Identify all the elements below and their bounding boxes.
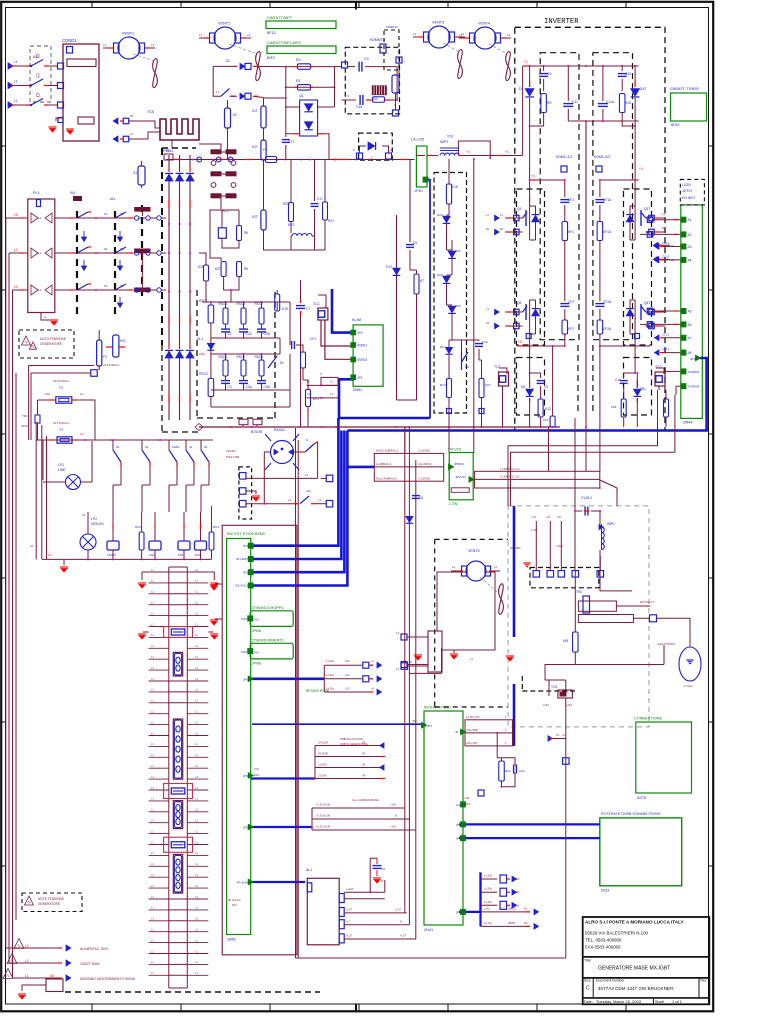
vent5 loop wires: [437, 572, 466, 631]
svg-text:K15: K15: [282, 307, 288, 311]
cap pair column top: [211, 150, 221, 154]
snubber RSC dashed box lines: [196, 290, 198, 418]
svg-text:120/0C: 120/0C: [226, 449, 237, 453]
svg-text:DL1: DL1: [197, 337, 203, 341]
svg-text:TGRD01: TGRD01: [688, 370, 700, 374]
svg-text:1-L2Ky: 1-L2Ky: [326, 659, 335, 663]
blue wire JP3 to system box: [459, 837, 600, 839]
svg-text:C7: C7: [306, 307, 310, 311]
svg-text:JP1: JP1: [357, 376, 363, 380]
svg-text:1 of 1: 1 of 1: [672, 999, 683, 1004]
komnt3 pin top: [380, 44, 386, 53]
svg-text:2M44: 2M44: [683, 421, 693, 425]
svg-text:FAX 0583-406060: FAX 0583-406060: [585, 945, 621, 950]
svg-text:IMP2: IMP2: [440, 140, 448, 144]
igbt module KOM1-2/2 dashed box: [593, 53, 633, 340]
warning triangles bottom: [14, 939, 24, 949]
center output line: [585, 121, 587, 418]
igbt lower dashed box right: [624, 358, 652, 416]
svg-text:1-L2Ky: 1-L2Ky: [484, 887, 493, 891]
svg-text:1-(S2F): 1-(S2F): [318, 763, 327, 767]
TC5 hanging wire: [171, 140, 173, 148]
svg-text:LA-1/25: LA-1/25: [411, 138, 424, 142]
resistor R25 column: [290, 160, 292, 203]
kom pins: [561, 166, 567, 172]
svg-text:S2: S2: [233, 113, 237, 117]
blue jpn top: [478, 790, 484, 796]
excitation lower loop: [545, 665, 575, 681]
excitation relay contacts: [523, 562, 530, 564]
cap C6 and resistor R9: [543, 66, 545, 71]
svg-text:D20: D20: [437, 213, 443, 217]
VENT5 dashed box: [434, 539, 436, 707]
svg-text:GENERATORE: GENERATORE: [40, 342, 62, 346]
svg-text:J2C: J2C: [345, 659, 350, 663]
svg-text:1F40: 1F40: [414, 189, 423, 193]
svg-text:C2B: C2B: [264, 332, 270, 336]
resistor K12: [538, 399, 543, 417]
svg-text:L1: L1: [38, 288, 42, 292]
svg-text:VENT2: VENT2: [218, 22, 230, 26]
kt200 pins right edge: [248, 543, 253, 548]
relay rc snubbers: [139, 532, 144, 550]
cap C11: [567, 66, 569, 101]
svg-text:Date:: Date:: [584, 1000, 593, 1004]
svg-text:PD1: PD1: [166, 149, 173, 153]
svg-text:1-L30 A12M: 1-L30 A12M: [316, 803, 330, 807]
svg-text:D20: D20: [437, 273, 443, 277]
al1 output rows: [344, 891, 385, 893]
vent5 grounds: [453, 650, 455, 653]
top right small dashed KOMNT2: [384, 30, 399, 70]
svg-text:∿: ∿: [6, 973, 10, 978]
svg-text:CN2: CN2: [149, 553, 155, 557]
svg-text:∿: ∿: [27, 900, 31, 905]
svg-text:L-R2T: L-R2T: [556, 544, 564, 548]
wire bundle box left of TRVOL: [374, 453, 443, 481]
svg-text:CF1: CF1: [568, 198, 574, 202]
svg-text:L2K1: L2K1: [566, 703, 573, 707]
bbob wires to terminals: [246, 477, 318, 479]
PL1 output rows: [55, 217, 77, 219]
svg-text:ALL- ALIMENTAZIONE: ALL- ALIMENTAZIONE: [352, 798, 379, 802]
wire into inverter riser: [522, 66, 524, 156]
dc minus bus: [199, 426, 560, 428]
svg-text:1-L2Ky: 1-L2Ky: [484, 900, 493, 904]
cap CF2A resistor KF2A: [599, 337, 601, 347]
warning note dashed box bottom: [22, 893, 82, 912]
interf kt200 edge pins: [461, 802, 466, 807]
igbt module KOM1-1/2 dashed box: [540, 53, 579, 340]
q6 input arrows: [495, 309, 499, 315]
svg-text:K16: K16: [452, 185, 458, 189]
svg-text:2N81: 2N81: [353, 388, 362, 392]
rectifier PD1 dashed line: [161, 148, 163, 345]
svg-text:IA1: IA1: [110, 197, 115, 201]
svg-text:S4: S4: [362, 752, 366, 756]
resistor K7: [414, 274, 419, 294]
svg-text:K0MNT2: K0MNT2: [386, 25, 398, 29]
sensor wire inside LA: [416, 155, 425, 157]
svg-text:S1: S1: [145, 445, 149, 449]
bbob ground: [246, 491, 256, 494]
right riser R block: [334, 67, 336, 107]
chopper feed verticals: [396, 215, 398, 400]
svg-text:Q3T: Q3T: [644, 207, 650, 211]
svg-text:4077A3 CDM 1347 GW BRUCKNER: 4077A3 CDM 1347 GW BRUCKNER: [598, 986, 674, 991]
svg-text:L1: L1: [288, 498, 292, 502]
svg-text:D: D: [410, 660, 412, 664]
svg-text:KLIM: KLIM: [352, 318, 361, 322]
svg-text:L1: L1: [216, 90, 220, 94]
svg-text:C10: C10: [625, 72, 631, 76]
rl1 wiring: [210, 196, 221, 261]
wire rows S2F group: [314, 746, 316, 779]
svg-text:K18: K18: [611, 405, 617, 409]
svg-text:SVR02: SVR02: [357, 358, 367, 362]
svg-text:U/D: U/D: [254, 767, 259, 771]
svg-text:KF2: KF2: [568, 327, 574, 331]
svg-text:F2: F2: [60, 428, 64, 432]
komnt3 cap C16: [342, 99, 357, 101]
svg-text:CARATT. TRASF.: CARATT. TRASF.: [670, 87, 700, 91]
svg-text:2-L30 A12M: 2-L30 A12M: [316, 814, 330, 818]
svg-text:B0-126 dim: B0-126 dim: [228, 899, 241, 902]
wire Q1 top to rails: [286, 106, 300, 108]
svg-text:A5: A5: [688, 310, 692, 314]
chopper dashed box: [434, 173, 467, 414]
svg-text:NOTE TENSIONE: NOTE TENSIONE: [38, 897, 64, 901]
svg-text:MASSIMO ASSORBIMENTO 500VA: MASSIMO ASSORBIMENTO 500VA: [80, 977, 136, 981]
svg-text:A278: A278: [637, 796, 646, 800]
svg-text:CN3: CN3: [253, 618, 259, 622]
svg-text:TC6: TC6: [447, 135, 453, 139]
chopper diode D26: [448, 306, 456, 312]
svg-text:2N1: 2N1: [640, 387, 646, 391]
svg-text:K7: K7: [420, 279, 424, 283]
ground inside COND1 left: [49, 126, 57, 128]
chopper diode D20b: [443, 276, 451, 282]
svg-text:L4: L4: [396, 631, 400, 635]
svg-text:L2Ky D2T: L2Ky D2T: [466, 741, 478, 745]
svg-text:L2: L2: [25, 959, 29, 963]
svg-text:2N41: 2N41: [424, 928, 433, 932]
svg-text:1: 1: [371, 156, 373, 160]
svg-text:13K: 13K: [45, 392, 50, 396]
svg-text:2K11: 2K11: [601, 889, 610, 893]
rsc dashed bottom2: [161, 345, 163, 432]
svg-text:A3: A3: [688, 245, 692, 249]
PL1 left feeder verticals: [5, 218, 7, 425]
svg-text:ELETTRODO: ELETTRODO: [658, 642, 676, 646]
fuse S1 vertical: [138, 166, 145, 185]
relay coils row: [112, 512, 114, 541]
resistor K21 small: [204, 265, 209, 281]
svg-text:C16: C16: [356, 105, 362, 109]
blue wire JP6 retard: [251, 677, 325, 680]
switch row IN1: [74, 197, 82, 201]
bypass diode D2: [368, 142, 375, 150]
svg-text:L1: L1: [330, 392, 334, 396]
cap C10 and resistor R20: [621, 66, 623, 71]
svg-text:BIF2: BIF2: [267, 56, 275, 60]
svg-text:S: S: [306, 438, 308, 442]
svg-text:CN: CN: [381, 867, 385, 871]
main rail: [166, 159, 414, 161]
svg-text:ROB IN GENERATORE: ROB IN GENERATORE: [340, 742, 368, 746]
chopper cap C19: [475, 343, 483, 345]
svg-text:TC4: TC4: [551, 685, 558, 689]
svg-text:C-L2K/W2: C-L2K/W2: [418, 477, 431, 481]
svg-text:S1: S1: [130, 114, 134, 118]
resistor K1T: [264, 97, 286, 99]
svg-text:S4: S4: [362, 774, 366, 778]
border tick marks bottom: [91, 1004, 93, 1011]
svg-text:W1L2-A/2BRA1L2: W1L2-A/2BRA1L2: [376, 477, 398, 481]
svg-text:24-(S2F): 24-(S2F): [318, 741, 328, 745]
blue wire JP-ALIM: [251, 881, 305, 883]
igbt Q6T right: [646, 311, 652, 313]
svg-text:D: D: [400, 919, 402, 923]
svg-text:∿: ∿: [24, 340, 28, 345]
svg-text:K2T: K2T: [215, 267, 221, 271]
svg-text:L1: L1: [507, 33, 511, 37]
svg-text:K01: K01: [120, 339, 126, 343]
svg-text:24: 24: [82, 513, 86, 517]
svg-text:C1T: C1T: [288, 140, 294, 144]
svg-text:L1: L1: [459, 33, 463, 37]
bus risers down from chopper: [448, 414, 450, 452]
svg-text:CVOL1: CVOL1: [581, 496, 592, 500]
svg-text:C1-L2: C1-L2: [662, 254, 670, 258]
svg-text:L1: L1: [14, 80, 18, 84]
rail to LA sensor: [427, 155, 438, 157]
lower diodes D6 D5: [526, 389, 534, 395]
wire rows below KLIM: [307, 384, 339, 386]
svg-text:CF1: CF1: [310, 337, 316, 341]
svg-text:L2T: L2T: [532, 516, 537, 519]
svg-text:S1: S1: [204, 445, 208, 449]
svg-text:L2T: L2T: [546, 516, 551, 519]
svg-text:VENT5: VENT5: [468, 549, 480, 553]
KO-INVT dashed label box: [680, 179, 704, 205]
branch C9 K12: [530, 372, 541, 374]
svg-text:JP5: JP5: [456, 823, 462, 827]
svg-text:+L2T: +L2T: [346, 934, 352, 938]
svg-text:Q1: Q1: [299, 94, 304, 98]
svg-text:8F13: 8F13: [267, 31, 276, 35]
long rail y440: [36, 439, 213, 441]
svg-text:R21: R21: [328, 219, 334, 223]
svg-text:D2C: D2C: [254, 773, 260, 777]
svg-text:L2: L2: [14, 248, 18, 252]
inverter center-left output: [552, 346, 554, 416]
q6t pin sq: [635, 334, 640, 339]
svg-text:A1-L2K/W2: A1-L2K/W2: [418, 462, 432, 466]
blue wire JP5 to system box: [459, 823, 600, 825]
svg-text:24/0VT 50Hz: 24/0VT 50Hz: [80, 962, 100, 966]
svg-text:L1: L1: [413, 32, 417, 36]
svg-text:D2C: D2C: [465, 802, 471, 806]
cap CF1 resistor KF1: [564, 180, 566, 197]
svg-text:CF2A: CF2A: [603, 300, 612, 304]
relay bottom rail: [42, 558, 212, 560]
svg-text:C16: C16: [615, 378, 621, 382]
svg-text:S1: S1: [120, 284, 124, 288]
tc3 wire down: [658, 386, 660, 390]
svg-text:ALRO S.r.l PONTE A MORIANO LUC: ALRO S.r.l PONTE A MORIANO LUCCA ITALY: [585, 920, 684, 925]
svg-text:CN-VOL1: CN-VOL1: [235, 584, 248, 588]
svg-text:S4: S4: [362, 763, 366, 767]
jp15 pin: [696, 355, 701, 361]
svg-text:OBBLIGA DI KT200: OBBLIGA DI KT200: [340, 737, 363, 741]
rectifier PD1 diodes top: [168, 155, 170, 168]
svg-text:GEN.ON: GEN.ON: [91, 522, 104, 526]
bbob lower wire IA3: [246, 503, 297, 505]
blue bus down to CN wire box: [513, 684, 516, 746]
svg-text:JP3: JP3: [456, 837, 462, 841]
tc2 wire to bus: [502, 386, 504, 427]
lower rail right: [600, 345, 650, 347]
svg-text:IN1: IN1: [70, 191, 75, 195]
chopper resistor K27: [479, 379, 484, 398]
svg-text:L4: L4: [80, 392, 84, 396]
svg-text:∿: ∿: [10, 958, 14, 963]
svg-text:J2C: J2C: [345, 687, 350, 691]
svg-text:COND1: COND1: [62, 38, 77, 43]
svg-text:SW01: SW01: [172, 445, 180, 449]
svg-text:Rev: Rev: [701, 979, 707, 983]
svg-text:Ω: Ω: [36, 54, 40, 60]
svg-text:RA1: RA1: [505, 769, 511, 773]
blue wire JP4 fanout: [459, 872, 481, 912]
svg-text:L2GN: L2GN: [682, 183, 691, 187]
PL1 input wires: [6, 217, 28, 219]
svg-text:W1A/2-A/2BRA1L2: W1A/2-A/2BRA1L2: [376, 449, 399, 453]
wire pair to F3: [29, 365, 94, 367]
igbt driver dashed box left: [517, 189, 545, 345]
svg-text:ALIMENTAZ. GEN: ALIMENTAZ. GEN: [80, 947, 109, 951]
svg-text:L1: L1: [247, 33, 251, 37]
komnt3 braided resistor K22: [372, 86, 386, 95]
svg-text:Q3: Q3: [517, 207, 521, 211]
svg-text:CARATT.BIF1-MF2: CARATT.BIF1-MF2: [267, 40, 302, 45]
svg-text:CA1: CA1: [519, 769, 525, 773]
ladder top grounds: [142, 571, 149, 573]
rectifier input dashed box IN1: [76, 211, 78, 315]
svg-text:L1: L1: [14, 213, 18, 217]
resistor R21b: [324, 160, 326, 203]
svg-text:K0M1-1/2: K0M1-1/2: [556, 155, 572, 159]
svg-text:CONNECTIONS: CONNECTIONS: [634, 717, 663, 721]
svg-text:A8: A8: [688, 351, 692, 355]
chopper diode D21: [448, 251, 456, 257]
svg-text:Ω: Ω: [36, 93, 40, 99]
svg-text:C3B: C3B: [264, 385, 270, 389]
svg-text:Size: Size: [584, 979, 591, 983]
svg-text:D2: D2: [524, 906, 528, 910]
svg-text:55029 VIA BALESTRIERI N.100: 55029 VIA BALESTRIERI N.100: [585, 931, 649, 936]
svg-text:KF1: KF1: [568, 230, 574, 234]
igbt Q3 left: [515, 217, 523, 219]
svg-text:+L12T: +L12T: [346, 887, 354, 891]
svg-text:L1: L1: [662, 212, 666, 216]
svg-text:JP-LENT: JP-LENT: [236, 557, 248, 561]
blue bus branch wirebox: [347, 466, 374, 469]
svg-text:1-L2BRA1L2- D1: 1-L2BRA1L2- D1: [500, 475, 520, 479]
svg-text:D4: D4: [519, 87, 523, 91]
svg-text:+1: +1: [524, 60, 528, 64]
svg-text:1-L2Ky: 1-L2Ky: [484, 874, 493, 878]
svg-text:K1T: K1T: [252, 109, 258, 113]
svg-text:2456: 2456: [227, 938, 235, 942]
kt200 lower pins: [248, 676, 253, 682]
svg-text:R25: R25: [283, 202, 289, 206]
svg-text:K27: K27: [485, 383, 491, 387]
capacitor C8 on dump line: [412, 495, 420, 497]
svg-text:SW-GST KT200 B2M0: SW-GST KT200 B2M0: [227, 532, 265, 536]
chopper diode D9: [445, 347, 452, 353]
svg-text:JP9WC: JP9WC: [454, 462, 465, 466]
svg-text:JP5: JP5: [243, 826, 249, 830]
igbt Q3T right: [646, 217, 652, 219]
cap bank connect circles: [135, 216, 139, 220]
trvol pins: [449, 464, 454, 470]
svg-text:R20: R20: [625, 101, 631, 105]
retard right extra: [401, 663, 408, 670]
al1 right verticals: [384, 880, 386, 892]
svg-text:K0MNT3: K0MNT3: [370, 38, 385, 42]
svg-text:(SEL1): (SEL1): [508, 906, 516, 910]
svg-text:Document Number: Document Number: [596, 979, 625, 983]
igbt Q3 symbol: [525, 210, 527, 226]
capacitor C1T: [282, 139, 290, 141]
svg-text:C2A: C2A: [246, 332, 253, 336]
rectifier input dashed box IA1: [114, 211, 116, 315]
svg-text:Tuesday, March 25, 2003: Tuesday, March 25, 2003: [596, 999, 642, 1004]
wire bundle box right of TRVOL: [475, 471, 600, 488]
center link bus: [568, 120, 638, 122]
svg-text:+4: +4: [639, 167, 643, 171]
kt200 left grounds: [215, 583, 222, 585]
svg-text:Q6: Q6: [517, 301, 521, 305]
svg-text:L4: L4: [452, 565, 456, 569]
svg-text:L1: L1: [38, 216, 42, 220]
svg-text:K12: K12: [545, 407, 551, 411]
motor left wire: [264, 452, 270, 504]
excitation wires: [600, 556, 632, 591]
capacitor bank dashed line: [141, 205, 143, 300]
svg-text:C1-L2: C1-L2: [662, 332, 670, 336]
svg-text:D1: D1: [486, 321, 490, 325]
excitation gray dashed box: [508, 506, 649, 727]
svg-text:MA2 1/2B: MA2 1/2B: [226, 455, 239, 459]
svg-text:D9: D9: [440, 345, 444, 349]
wire R1 row: [286, 86, 335, 88]
svg-text:JP0: JP0: [357, 331, 363, 335]
svg-text:L2T: L2T: [557, 516, 562, 519]
border tick marks top: [91, 2, 93, 8]
TC5 terminals: [128, 121, 160, 128]
svg-text:RC2: RC2: [135, 525, 141, 529]
svg-text:25-(S2F): 25-(S2F): [318, 752, 328, 756]
svg-text:C3: C3: [228, 385, 232, 389]
switch rows to relays: [112, 440, 114, 450]
rsc left column wire: [210, 302, 212, 305]
kin resistor: [573, 632, 579, 652]
svg-text:Q4: Q4: [465, 365, 469, 369]
svg-text:K2T: K2T: [252, 215, 258, 219]
